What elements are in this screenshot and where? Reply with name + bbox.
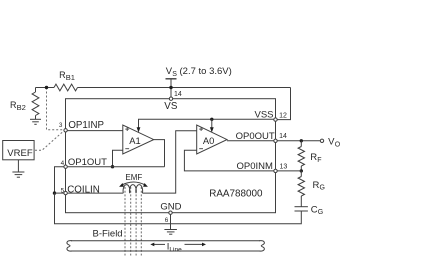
wire OP1INP to A1 — [68, 130, 123, 132]
wire OP1OUT internal — [68, 166, 165, 168]
wire OP0OUT internal — [227, 140, 274, 142]
svg-text:14: 14 — [279, 133, 287, 140]
supply arrow A1 — [137, 127, 141, 132]
svg-text:O: O — [335, 142, 341, 149]
node COILIN junction — [53, 191, 56, 194]
pin 14 VS — [169, 97, 172, 100]
pin 3 OP1INP — [64, 129, 67, 132]
current arrows I_Line — [153, 243, 165, 245]
node divider junction — [45, 86, 48, 89]
wire OP1OUT external to COILIN — [55, 167, 65, 193]
svg-text:R: R — [310, 152, 317, 163]
wire VSS rail — [139, 119, 276, 127]
svg-text:4: 4 — [61, 160, 65, 167]
node RF junction — [300, 139, 303, 142]
svg-text:OP1INP: OP1INP — [68, 120, 104, 131]
op-amp A0 — [197, 125, 227, 154]
svg-text:VREF: VREF — [7, 148, 33, 159]
svg-text:C: C — [311, 204, 318, 215]
svg-text:S: S — [172, 71, 177, 78]
svg-text:A0: A0 — [203, 135, 214, 146]
B-field dashed flux lines — [125, 187, 141, 256]
pin 4 OP1OUT — [64, 165, 67, 168]
svg-text:B1: B1 — [66, 73, 75, 82]
VREF source — [3, 141, 34, 160]
svg-text:EMF: EMF — [125, 173, 142, 182]
svg-text:RAA788000: RAA788000 — [209, 189, 263, 200]
wire GND — [170, 214, 172, 229]
svg-text:(2.7 to 3.6V): (2.7 to 3.6V) — [180, 66, 232, 77]
svg-text:B-Field: B-Field — [93, 229, 123, 240]
conductor pipe — [71, 240, 260, 242]
svg-text:A1: A1 — [129, 135, 140, 146]
svg-text:G: G — [318, 209, 323, 216]
svg-text:OP0OUT: OP0OUT — [236, 131, 275, 142]
wire A1 inverting stub — [113, 150, 123, 166]
wire A1 feedback (output loop) — [154, 140, 165, 167]
wire bottom return — [55, 193, 302, 224]
ground (GND pin) — [164, 229, 177, 231]
node VS junction — [169, 86, 172, 89]
wire dashed bias from divider to pin 3 — [47, 88, 64, 130]
resistor RB1 — [54, 84, 78, 91]
wire COILIN external stub — [55, 192, 65, 194]
wire COILIN to coil — [68, 192, 124, 194]
EMF arrow arc — [122, 182, 145, 185]
label VS supply — [166, 66, 232, 78]
wire A0 feedback to OP0INM — [184, 150, 273, 171]
svg-text:14: 14 — [174, 91, 182, 98]
svg-text:F: F — [317, 157, 321, 164]
pin 13 OP0INM — [274, 169, 277, 172]
terminal VO — [320, 139, 323, 142]
svg-text:13: 13 — [280, 164, 288, 171]
svg-text:COILIN: COILIN — [67, 184, 100, 195]
wire coil to A0 noninverting — [142, 131, 196, 193]
inductor coil — [123, 185, 143, 194]
power terminal VS — [166, 78, 177, 80]
svg-text:3: 3 — [59, 122, 63, 129]
svg-text:OP1OUT: OP1OUT — [68, 157, 107, 168]
resistor RB2 — [35, 88, 37, 93]
node OP0INM junction — [300, 169, 303, 172]
IC RAA788000 box — [66, 99, 276, 213]
wire OP0INM external — [277, 170, 301, 172]
svg-text:Line: Line — [169, 246, 182, 253]
pin 14 OP0OUT — [274, 139, 277, 142]
supply arrow A0 — [211, 119, 213, 127]
capacitor CG — [295, 206, 308, 208]
svg-text:G: G — [320, 185, 325, 192]
pin 6 GND — [169, 211, 172, 214]
svg-text:B2: B2 — [17, 103, 26, 112]
wire OP0OUT external — [277, 140, 320, 142]
svg-text:VS: VS — [164, 101, 178, 112]
wire dashed bias from VREF to pin 3 — [35, 131, 64, 150]
svg-text:R: R — [313, 180, 320, 191]
ground (VREF) — [17, 160, 19, 172]
svg-text:OP0INM: OP0INM — [237, 161, 274, 172]
pin 12 VSS — [274, 118, 277, 121]
node A1 feedback junction — [111, 165, 114, 168]
svg-text:GND: GND — [160, 202, 181, 213]
node A0 supply tap — [210, 118, 213, 121]
resistor RF — [300, 141, 302, 147]
resistor RG — [300, 171, 302, 177]
svg-text:6: 6 — [165, 217, 169, 224]
ground (RB2) — [30, 118, 41, 120]
svg-text:VSS: VSS — [255, 110, 274, 121]
svg-text:12: 12 — [279, 112, 287, 119]
wire top rail — [36, 87, 55, 89]
wire VSS external hook — [277, 88, 290, 120]
pin 5 COILIN — [64, 191, 67, 194]
op-amp A1 — [123, 125, 154, 154]
